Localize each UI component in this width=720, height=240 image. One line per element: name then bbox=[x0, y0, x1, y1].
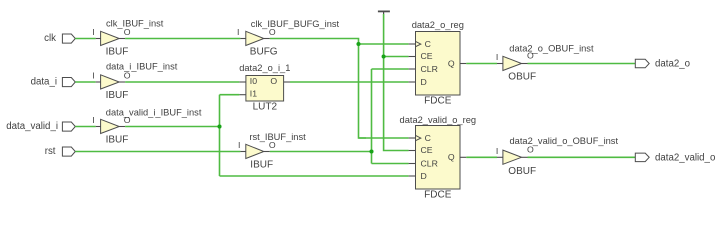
svg-text:I: I bbox=[237, 27, 239, 37]
svg-text:data2_o_reg: data2_o_reg bbox=[412, 20, 464, 30]
junction data_valid net bbox=[217, 124, 221, 128]
svg-text:rst: rst bbox=[45, 146, 56, 157]
wire const1 vertical bbox=[384, 14, 409, 151]
wire data2_o_reg Q bbox=[466, 63, 497, 65]
wire rst to upper CLR bbox=[372, 68, 409, 70]
wire data2_o bbox=[528, 63, 636, 65]
svg-text:Q: Q bbox=[448, 152, 455, 162]
svg-text:I: I bbox=[92, 27, 94, 37]
svg-text:I0: I0 bbox=[250, 76, 257, 86]
wire data_i bbox=[75, 81, 95, 83]
svg-text:OBUF: OBUF bbox=[508, 72, 536, 83]
IBUF data_valid_i_IBUF_inst bbox=[92, 107, 202, 145]
wire data_valid to LUT2 I1 bbox=[220, 94, 240, 96]
svg-text:CE: CE bbox=[421, 145, 433, 155]
svg-text:data_valid_i: data_valid_i bbox=[6, 121, 58, 132]
svg-text:OBUF: OBUF bbox=[508, 166, 536, 177]
FDCE data2_o_reg bbox=[409, 20, 467, 107]
wire const1 to upper CE bbox=[384, 56, 409, 58]
OBUF data2_valid_o_OBUF_inst bbox=[496, 136, 619, 177]
port data_i bbox=[31, 77, 76, 88]
svg-text:data_i_IBUF_inst: data_i_IBUF_inst bbox=[106, 62, 178, 72]
svg-text:FDCE: FDCE bbox=[424, 190, 452, 201]
svg-text:data2_valid_o: data2_valid_o bbox=[655, 152, 715, 163]
svg-text:CLR: CLR bbox=[421, 158, 438, 168]
wire data_valid to lower D bbox=[220, 175, 409, 177]
wire clk to lower C bbox=[359, 137, 409, 139]
OBUF data2_o_OBUF_inst bbox=[496, 43, 594, 82]
svg-text:O: O bbox=[124, 27, 131, 37]
svg-text:I: I bbox=[496, 146, 498, 156]
svg-text:rst_IBUF_inst: rst_IBUF_inst bbox=[249, 132, 306, 142]
port data_valid_i bbox=[6, 121, 75, 132]
wire clk bbox=[75, 38, 95, 40]
svg-text:LUT2: LUT2 bbox=[253, 101, 278, 112]
svg-text:FDCE: FDCE bbox=[424, 96, 452, 107]
svg-text:data2_o_OBUF_inst: data2_o_OBUF_inst bbox=[509, 43, 594, 53]
svg-text:data_i: data_i bbox=[31, 77, 57, 88]
LUT2 data2_o_i_1 bbox=[239, 63, 290, 113]
junction rst net bbox=[369, 149, 373, 153]
wire rst vertical bbox=[371, 69, 373, 164]
svg-text:BUFG: BUFG bbox=[250, 46, 278, 57]
svg-text:data2_o: data2_o bbox=[655, 59, 690, 70]
svg-text:clk_IBUF_BUFG_inst: clk_IBUF_BUFG_inst bbox=[251, 19, 340, 29]
wire LUT2 O to upper D bbox=[290, 81, 409, 83]
wire rst_IBUF net bbox=[270, 151, 372, 153]
svg-text:data2_valid_o_OBUF_inst: data2_valid_o_OBUF_inst bbox=[510, 136, 619, 146]
junction clk net bbox=[356, 42, 360, 46]
wire data_valid_i bbox=[75, 126, 95, 128]
svg-text:clk_IBUF_inst: clk_IBUF_inst bbox=[106, 19, 164, 29]
svg-text:data2_valid_o_reg: data2_valid_o_reg bbox=[400, 115, 477, 125]
svg-text:clk: clk bbox=[44, 33, 56, 44]
svg-text:I1: I1 bbox=[250, 89, 257, 99]
svg-text:IBUF: IBUF bbox=[250, 159, 273, 170]
svg-text:I: I bbox=[92, 71, 94, 81]
wire clk_IBUF bbox=[125, 38, 240, 40]
wire rst to lower CLR bbox=[372, 163, 409, 165]
IBUF rst_IBUF_inst bbox=[238, 132, 306, 171]
svg-text:Q: Q bbox=[448, 58, 455, 68]
port data2_valid_o bbox=[635, 152, 715, 163]
svg-text:CLR: CLR bbox=[421, 64, 438, 74]
svg-text:O: O bbox=[124, 71, 131, 81]
port rst bbox=[45, 146, 76, 157]
svg-text:IBUF: IBUF bbox=[106, 90, 129, 101]
svg-text:data2_o_i_1: data2_o_i_1 bbox=[239, 63, 290, 73]
svg-text:CE: CE bbox=[421, 51, 433, 61]
svg-text:O: O bbox=[270, 76, 277, 86]
svg-text:I: I bbox=[238, 140, 240, 150]
wire data2_valid_o bbox=[528, 156, 636, 158]
BUFG clk_IBUF_BUFG_inst bbox=[237, 19, 340, 58]
svg-text:D: D bbox=[421, 77, 427, 87]
wire clk_IBUF_BUFG net bbox=[270, 39, 366, 139]
port clk bbox=[44, 33, 75, 44]
wire clk to upper C bbox=[359, 43, 409, 45]
svg-text:IBUF: IBUF bbox=[106, 46, 129, 57]
svg-text:I: I bbox=[496, 52, 498, 62]
FDCE data2_valid_o_reg bbox=[400, 115, 477, 201]
svg-text:C: C bbox=[425, 133, 431, 143]
wire data2_valid_o_reg Q bbox=[466, 156, 497, 158]
IBUF clk_IBUF_inst bbox=[92, 19, 163, 58]
wire data_valid vertical bbox=[219, 95, 221, 176]
svg-text:C: C bbox=[425, 39, 431, 49]
svg-text:data_valid_i_IBUF_inst: data_valid_i_IBUF_inst bbox=[106, 107, 202, 117]
wire rst bbox=[75, 151, 240, 153]
svg-text:IBUF: IBUF bbox=[106, 134, 129, 145]
port data2_o bbox=[635, 59, 690, 70]
supply VCC const1 bbox=[378, 11, 390, 14]
junction const1 net bbox=[382, 54, 386, 58]
wire data_i_IBUF bbox=[125, 81, 239, 83]
wire data_valid_i_IBUF net bbox=[125, 126, 219, 128]
svg-text:D: D bbox=[421, 171, 427, 181]
IBUF data_i_IBUF_inst bbox=[92, 62, 177, 101]
svg-text:I: I bbox=[92, 115, 94, 125]
